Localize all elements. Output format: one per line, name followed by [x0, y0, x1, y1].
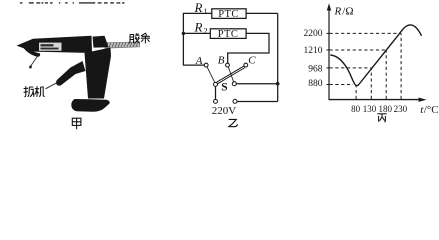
svg-text:C: C — [248, 55, 256, 67]
svg-text:A: A — [195, 55, 203, 67]
svg-text:/°C: /°C — [424, 104, 439, 116]
svg-text:R: R — [334, 6, 342, 18]
svg-text:880: 880 — [308, 79, 323, 89]
svg-text:220V: 220V — [212, 105, 237, 117]
svg-text:180: 180 — [378, 104, 392, 114]
svg-text:130: 130 — [363, 104, 377, 114]
svg-text:B: B — [218, 55, 225, 67]
svg-text:R: R — [194, 0, 203, 15]
svg-text:PTC: PTC — [218, 9, 238, 20]
svg-text:PTC: PTC — [218, 29, 238, 40]
svg-text:2: 2 — [204, 26, 208, 35]
svg-text:/Ω: /Ω — [342, 6, 353, 18]
svg-text:230: 230 — [394, 104, 408, 114]
svg-text:S: S — [221, 82, 227, 94]
svg-text:1210: 1210 — [304, 46, 323, 56]
svg-text:968: 968 — [308, 65, 323, 75]
svg-text:2200: 2200 — [304, 29, 323, 39]
svg-text:80: 80 — [351, 104, 361, 114]
svg-text:1: 1 — [204, 7, 208, 16]
svg-text:R: R — [194, 19, 203, 34]
